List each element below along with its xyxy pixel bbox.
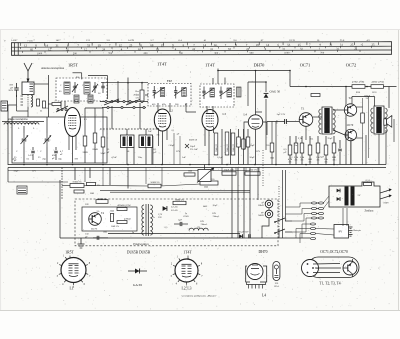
svg-text:25: 25	[371, 43, 375, 47]
speaker	[384, 119, 387, 125]
socket L2 L3	[175, 259, 198, 282]
svg-text:T2: T2	[348, 96, 352, 100]
svg-text:56Ω: 56Ω	[332, 156, 336, 159]
svg-text:2V: 2V	[358, 194, 361, 197]
transistor T2	[344, 104, 356, 116]
svg-text:GA 65: GA 65	[171, 209, 178, 212]
svg-text:500Ω 5%: 500Ω 5%	[150, 181, 159, 184]
wire bottom bus	[60, 237, 310, 239]
svg-text:OC72: OC72	[346, 63, 357, 68]
mains arrows	[380, 190, 390, 193]
wire	[61, 168, 63, 200]
svg-text:50μF: 50μF	[169, 144, 175, 147]
bus drops	[23, 164, 25, 166]
transformer Tr1	[322, 107, 332, 134]
svg-text:25μF: 25μF	[213, 205, 218, 207]
svg-text:L3: L3	[223, 112, 227, 116]
svg-text:50kΩ 0,25: 50kΩ 0,25	[216, 144, 218, 152]
svg-text:7 235: 7 235	[27, 39, 33, 42]
resistor R emitter	[361, 113, 365, 123]
wire	[85, 107, 103, 109]
svg-text:19 76: 19 76	[289, 39, 295, 42]
svg-text:Tr: Tr	[153, 216, 155, 219]
svg-text:100μF: 100μF	[364, 95, 371, 97]
svg-text:470kΩ: 470kΩ	[124, 217, 131, 220]
svg-text:14: 14	[203, 43, 207, 47]
resistor mid2	[148, 184, 161, 188]
svg-text:50μF: 50μF	[14, 171, 20, 173]
svg-text:5%: 5%	[289, 162, 292, 164]
svg-text:Dł: Dł	[198, 226, 201, 229]
transistor pinout T1-T4	[308, 257, 359, 278]
svg-text:5%: 5%	[301, 160, 304, 162]
svg-text:5%: 5%	[309, 162, 312, 164]
resistor mid1c	[74, 190, 84, 193]
svg-text:Przetwornica: Przetwornica	[133, 242, 149, 246]
wire	[8, 104, 17, 106]
page edge top	[0, 29, 400, 31]
switch S2a	[274, 221, 276, 223]
svg-text:25pF: 25pF	[249, 144, 255, 147]
tube L3	[202, 110, 218, 131]
audio drops	[350, 139, 352, 165]
svg-text:DUS 50: DUS 50	[189, 139, 198, 142]
bus extra drops	[84, 168, 86, 183]
wire	[126, 129, 128, 135]
wire bundle	[221, 129, 223, 165]
svg-text:14: 14	[45, 43, 49, 47]
jack J1	[265, 200, 273, 208]
ferrite antenna coil	[2, 121, 44, 123]
svg-text:470kΩ 0,25W: 470kΩ 0,25W	[117, 204, 131, 207]
svg-text:5%: 5%	[50, 171, 53, 173]
svg-text:125A: 125A	[274, 285, 280, 288]
svg-text:DH70: DH70	[254, 63, 266, 68]
svg-text:12: 12	[24, 44, 28, 48]
choke conv	[189, 228, 208, 230]
transistor T1	[299, 113, 313, 127]
svg-text:1kΩ 5%: 1kΩ 5%	[111, 225, 119, 228]
svg-text:DU65B DU65B: DU65B DU65B	[127, 251, 151, 255]
svg-text:53: 53	[287, 43, 291, 47]
wire	[313, 116, 322, 118]
wire	[157, 103, 159, 113]
wire anode L1	[73, 72, 82, 74]
IF transformer FPZ1	[148, 84, 191, 107]
wire right drops	[282, 170, 284, 238]
svg-text:100Ω 5%: 100Ω 5%	[72, 181, 81, 184]
svg-text:12V: 12V	[32, 171, 36, 173]
tube L1	[65, 108, 81, 137]
svg-text:2nF: 2nF	[194, 148, 198, 151]
wire left under bus	[7, 168, 9, 183]
svg-text:12V: 12V	[176, 150, 180, 153]
volume pot P1	[198, 170, 211, 182]
tube L4	[248, 115, 262, 129]
jack J2	[265, 210, 273, 218]
svg-text:220V: 220V	[384, 202, 390, 205]
wire top bus	[101, 82, 148, 84]
svg-text:470Ω+470Ω: 470Ω+470Ω	[352, 80, 364, 83]
connector plug rows	[312, 202, 317, 204]
converter box dashed	[75, 199, 278, 246]
svg-text:1kΩ: 1kΩ	[270, 158, 274, 160]
socket Pu	[1, 101, 8, 111]
switch S2b	[274, 232, 276, 234]
svg-text:1,2V: 1,2V	[158, 214, 163, 216]
svg-text:Antena zewnętrzna: Antena zewnętrzna	[41, 66, 65, 70]
wire	[248, 81, 266, 83]
oscillator coils L	[64, 82, 70, 94]
svg-text:Bateria: Bateria	[354, 229, 362, 232]
svg-text:31: 31	[56, 43, 60, 47]
svg-text:31: 31	[329, 43, 333, 47]
svg-text:0,1: 0,1	[172, 130, 175, 132]
svg-text:wewnętrzne podłączenie „Mazura: wewnętrzne podłączenie „Mazura”	[181, 295, 216, 298]
svg-text:19: 19	[98, 43, 102, 47]
svg-text:L4: L4	[244, 113, 248, 117]
transistor T3	[345, 129, 357, 141]
wire	[275, 122, 277, 165]
resistor mid6	[245, 172, 260, 175]
tube L2	[154, 109, 170, 131]
right resistor column	[288, 145, 292, 155]
wire	[23, 126, 25, 133]
svg-text:1T4T: 1T4T	[157, 62, 167, 67]
resistor R feed 1	[352, 85, 365, 89]
switch link dashed	[100, 128, 162, 130]
wire	[16, 95, 18, 111]
resistor R fb	[311, 94, 320, 97]
transformer mid 1	[121, 135, 135, 148]
svg-text:1MΩ: 1MΩ	[82, 151, 87, 154]
battery 9V	[334, 225, 349, 239]
variable capacitor C2	[23, 133, 25, 138]
svg-text:68: 68	[150, 43, 154, 47]
diode OAG50	[264, 94, 269, 98]
wire feeds2	[262, 222, 269, 238]
page edge right	[398, 30, 400, 310]
svg-text:5%: 5%	[157, 135, 160, 137]
svg-text:5%: 5%	[266, 144, 269, 147]
svg-text:5%: 5%	[325, 162, 328, 164]
svg-text:50Ω: 50Ω	[90, 193, 94, 195]
dial scale	[11, 42, 391, 56]
diode GA65 pin	[128, 270, 147, 272]
svg-text:5%: 5%	[333, 160, 336, 162]
resistor mid1	[70, 184, 84, 188]
svg-text:25V: 25V	[158, 217, 162, 219]
svg-text:5%: 5%	[97, 211, 100, 213]
svg-text:0,1μF: 0,1μF	[217, 156, 223, 159]
svg-text:L4: L4	[262, 294, 266, 298]
svg-text:1417: 1417	[56, 39, 62, 42]
capacitor 150uF b	[239, 234, 242, 238]
socket L4	[247, 264, 263, 280]
trimmer cap	[31, 150, 35, 152]
svg-text:20kΩ: 20kΩ	[258, 204, 264, 207]
osc corner parts	[37, 99, 40, 106]
converter transformer Tr3	[145, 204, 147, 236]
svg-text:20%: 20%	[8, 89, 13, 92]
svg-text:25: 25	[129, 43, 133, 47]
detector resistors	[214, 133, 218, 155]
resistor mid3	[184, 173, 195, 176]
svg-text:5%: 5%	[136, 97, 139, 100]
svg-text:1kΩ: 1kΩ	[110, 210, 114, 213]
resistor conv2	[117, 208, 127, 211]
svg-text:5kΩ: 5kΩ	[204, 186, 208, 189]
page edge left	[0, 30, 2, 310]
svg-text:1000: 1000	[284, 52, 290, 55]
input circuit box	[12, 117, 107, 163]
det extra wires	[152, 136, 154, 165]
wire	[34, 83, 49, 85]
pilot lamp	[273, 262, 280, 281]
svg-text:25μF: 25μF	[327, 137, 333, 140]
svg-text:~30mA: ~30mA	[200, 223, 208, 226]
svg-text:GA 65: GA 65	[133, 283, 142, 287]
svg-text:53: 53	[87, 43, 91, 47]
wire	[141, 83, 143, 90]
resistor conv top2	[173, 201, 186, 204]
FPZ2 extra coil	[237, 87, 242, 97]
antenna transformer	[22, 82, 34, 95]
svg-text:50pF: 50pF	[100, 152, 106, 155]
band switch S1	[100, 101, 148, 103]
transformer mid 2	[139, 135, 153, 148]
svg-text:DH70: DH70	[258, 250, 267, 254]
svg-text:50μF 15V: 50μF 15V	[224, 169, 234, 172]
resistor R det	[270, 143, 274, 152]
capacitor mix	[147, 93, 149, 97]
wire	[127, 78, 129, 105]
L1 bias parts	[83, 136, 87, 146]
svg-text:OC70: OC70	[347, 124, 354, 127]
transistor T4	[89, 213, 102, 226]
svg-text:5%: 5%	[317, 160, 320, 162]
svg-text:~50mA: ~50mA	[212, 215, 220, 218]
svg-text:50kΩ 0,25: 50kΩ 0,25	[227, 144, 229, 152]
wire	[345, 87, 347, 105]
wire	[48, 75, 50, 117]
svg-text:T1: T1	[301, 107, 305, 111]
svg-text:12V: 12V	[256, 150, 260, 153]
svg-text:50kΩ 0,25: 50kΩ 0,25	[233, 144, 235, 152]
wire	[256, 111, 263, 113]
svg-text:1000: 1000	[37, 52, 43, 55]
svg-text:L1: L1	[69, 287, 73, 291]
wire	[88, 75, 108, 77]
wire	[206, 106, 208, 113]
antenna coil core	[21, 95, 24, 97]
resistor conv top1	[96, 200, 108, 204]
svg-text:20V: 20V	[85, 204, 89, 206]
resistor conv1	[110, 214, 113, 222]
svg-text:antena wewnętrzna: antena wewnętrzna	[8, 118, 28, 121]
svg-text:4,7nF: 4,7nF	[111, 156, 117, 159]
svg-text:25: 25	[350, 43, 354, 47]
svg-text:19: 19	[161, 43, 165, 47]
svg-text:Tukł.: Tukł.	[277, 119, 279, 124]
svg-text:50μF: 50μF	[249, 156, 255, 159]
variable capacitor C3	[46, 133, 48, 138]
page edge bottom	[0, 310, 400, 312]
ground bus	[8, 164, 386, 166]
svg-text:5μF 15V: 5μF 15V	[277, 113, 286, 116]
svg-text:5μF: 5μF	[178, 219, 182, 222]
svg-text:14: 14	[214, 43, 218, 47]
wire	[333, 109, 344, 111]
wire audio top bus	[290, 86, 397, 88]
svg-text:150 μF/15V: 150 μF/15V	[237, 231, 249, 234]
resistor R feed 2	[371, 85, 384, 89]
svg-text:5%: 5%	[295, 160, 298, 162]
wire	[218, 70, 290, 72]
antenna	[24, 63, 32, 71]
partition dashed	[278, 186, 280, 229]
wire feeds	[231, 168, 233, 239]
svg-text:kHz: kHz	[162, 104, 166, 106]
power supply box Zasilacz	[329, 182, 380, 207]
svg-text:0,1A: 0,1A	[366, 179, 371, 182]
svg-text:1R5T: 1R5T	[68, 63, 78, 68]
resistor mid1b	[87, 182, 96, 185]
diode GA65 conv	[163, 206, 167, 211]
svg-text:1T4T: 1T4T	[183, 251, 192, 255]
svg-text:1 4167: 1 4167	[11, 39, 18, 42]
svg-text:5μF: 5μF	[320, 156, 324, 159]
resistor mid4	[200, 181, 218, 185]
svg-text:OAG 50: OAG 50	[270, 90, 281, 94]
IF transformer FPZ2	[200, 84, 234, 107]
wire	[257, 168, 259, 201]
svg-text:1kΩ: 1kΩ	[188, 170, 192, 173]
antenna coil lower	[31, 95, 33, 107]
svg-text:31: 31	[340, 43, 344, 47]
svg-text:1kΩ: 1kΩ	[308, 158, 312, 161]
oscillator coil box	[56, 78, 107, 101]
svg-text:1nF: 1nF	[182, 156, 186, 159]
svg-text:1T4T: 1T4T	[205, 63, 215, 68]
wire mid bus	[84, 185, 148, 188]
svg-text:14: 14	[266, 43, 270, 47]
transformer Tr2 output	[374, 106, 384, 134]
svg-text:GA65: GA65	[183, 215, 189, 218]
socket L1	[61, 258, 86, 283]
connector pins lower	[311, 223, 316, 225]
svg-text:50Ω: 50Ω	[103, 232, 107, 234]
switch contacts osc	[57, 109, 59, 111]
resistor mid5	[222, 172, 236, 175]
wire fan	[286, 203, 312, 207]
svg-text:12: 12	[119, 43, 123, 47]
svg-text:14 7B: 14 7B	[128, 39, 134, 42]
resistor Rw	[140, 90, 144, 101]
svg-text:3V: 3V	[366, 98, 369, 100]
junction dots top	[127, 82, 129, 84]
svg-text:500Ω: 500Ω	[258, 214, 264, 217]
svg-text:FPZ: FPZ	[167, 79, 172, 83]
svg-text:100Ω 5%: 100Ω 5%	[98, 198, 107, 200]
svg-text:OC71: OC71	[300, 63, 311, 68]
capacitor conv	[179, 222, 181, 226]
component block	[17, 186, 27, 194]
converter inner box	[82, 207, 137, 231]
ground symbol	[80, 238, 82, 244]
svg-text:3%: 3%	[190, 148, 193, 151]
resistor conv3	[117, 221, 127, 224]
svg-text:19: 19	[256, 43, 260, 47]
